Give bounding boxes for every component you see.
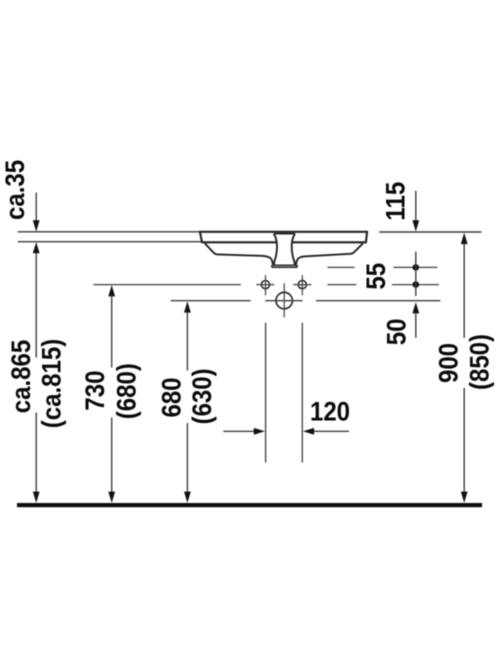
svg-text:(ca.815): (ca.815) [37,339,67,428]
svg-text:50: 50 [382,319,412,346]
drain column right side [292,234,295,265]
drain hole vertical crosshair [283,283,285,317]
svg-text:(680): (680) [112,363,142,419]
dim line 55 connector through dots [415,252,417,296]
svg-text:115: 115 [381,182,411,221]
dim line 115 upper [412,191,419,232]
dim line 680 [184,301,191,503]
countertop right extension line [379,231,481,233]
floor line [17,503,482,507]
reference line hole-level [93,284,439,286]
countertop top line [18,231,200,233]
fixing hole right circle [298,281,306,289]
reference line 115-level [327,266,437,268]
washbasin rim [200,232,367,243]
reference line drain-level [171,300,441,302]
dim line 900 [461,233,468,503]
svg-text:ca.865: ca.865 [7,340,37,413]
120 dim left arrow [223,428,265,435]
dot node at 55/50 junction [413,281,420,288]
dot node at 115/55 junction [413,264,420,271]
drain hole circle [276,292,292,308]
svg-text:730: 730 [81,371,111,411]
dim line ca.35 upper arrow [33,193,40,232]
dim line 730 [108,285,115,503]
svg-text:55: 55 [362,263,392,290]
drain column left side [274,234,277,265]
svg-text:ca.35: ca.35 [1,160,31,220]
120 extension line right [301,323,303,463]
svg-text:900: 900 [434,343,464,383]
svg-text:680: 680 [157,377,187,417]
svg-text:(630): (630) [188,368,218,424]
120 extension line left [265,323,267,463]
washbasin bowl left [205,243,273,264]
dim line 50 lower arrow [412,302,419,338]
svg-text:120: 120 [310,397,350,427]
drain column base plate [272,265,298,267]
countertop bottom line [18,241,202,243]
fixing hole left circle [261,281,269,289]
120 dim right arrow [303,428,349,435]
dim line ca.865 (shared up-arrow at countertop bottom) [33,242,40,503]
fixing hole left crosshair [256,275,274,295]
washbasin bowl right [296,243,363,264]
drain column top edge [274,233,295,235]
svg-text:(850): (850) [465,334,495,390]
fixing hole right crosshair [293,275,311,295]
